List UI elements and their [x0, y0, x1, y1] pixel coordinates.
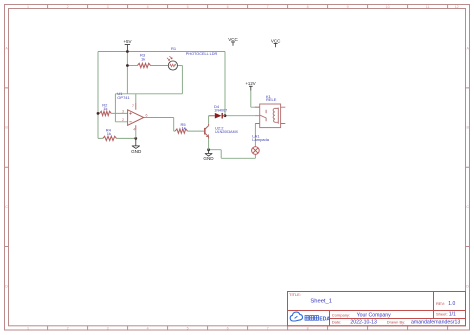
svg-text:11: 11 [426, 5, 430, 9]
svg-text:TITLE:: TITLE: [289, 292, 301, 297]
svg-text:OP741: OP741 [117, 95, 130, 100]
svg-text:R1: R1 [171, 46, 177, 51]
svg-text:RELE: RELE [266, 97, 277, 102]
svg-text:EDA: EDA [319, 316, 330, 322]
svg-text:1k: 1k [141, 57, 145, 62]
svg-text:1/1: 1/1 [449, 312, 456, 318]
svg-text:Drawn By:: Drawn By: [387, 319, 405, 324]
svg-text:Date:: Date: [332, 319, 342, 324]
svg-text:8: 8 [307, 5, 309, 9]
svg-text:3: 3 [122, 110, 124, 114]
svg-text:3: 3 [107, 326, 109, 330]
svg-text:1: 1 [27, 326, 29, 330]
svg-text:PHOTOCELL LDR: PHOTOCELL LDR [186, 52, 218, 56]
svg-text:7: 7 [267, 5, 269, 9]
svg-text:12: 12 [455, 5, 459, 9]
svg-text:1k: 1k [182, 126, 186, 131]
svg-text:VCC: VCC [228, 37, 238, 42]
svg-text:6: 6 [227, 5, 229, 9]
svg-text:C: C [5, 205, 8, 209]
svg-text:+12V: +12V [245, 81, 255, 86]
svg-text:2: 2 [67, 5, 69, 9]
svg-text:D: D [5, 284, 8, 288]
svg-text:3: 3 [107, 5, 109, 9]
svg-text:1k: 1k [107, 131, 111, 136]
svg-text:Lampada: Lampada [252, 137, 269, 142]
svg-text:8: 8 [307, 326, 309, 330]
svg-text:2022-10-13: 2022-10-13 [350, 320, 377, 326]
svg-text:7: 7 [267, 326, 269, 330]
svg-text:7: 7 [132, 104, 134, 108]
svg-text:5: 5 [187, 5, 189, 9]
svg-text:REV:: REV: [436, 301, 445, 306]
svg-text:1N4007: 1N4007 [214, 108, 227, 112]
svg-text:D: D [466, 284, 469, 288]
svg-text:GND: GND [203, 156, 214, 161]
svg-text:2: 2 [122, 118, 124, 122]
svg-text:4: 4 [133, 128, 135, 132]
svg-text:ULN2003AMX: ULN2003AMX [215, 130, 239, 134]
svg-text:4: 4 [147, 326, 149, 330]
svg-text:Your Company: Your Company [357, 313, 392, 319]
svg-text:1: 1 [27, 5, 29, 9]
svg-text:1k: 1k [103, 106, 107, 111]
svg-text:+5V: +5V [123, 39, 131, 44]
svg-text:4: 4 [147, 5, 149, 9]
svg-text:10: 10 [386, 5, 390, 9]
svg-text:C: C [466, 205, 469, 209]
svg-text:VCC: VCC [271, 39, 281, 44]
svg-text:2: 2 [67, 326, 69, 330]
svg-text:5: 5 [187, 326, 189, 330]
svg-text:GND: GND [131, 149, 142, 154]
svg-text:amandafernandesr13: amandafernandesr13 [411, 320, 460, 326]
svg-text:6: 6 [227, 326, 229, 330]
svg-text:9: 9 [347, 5, 349, 9]
svg-text:Company:: Company: [332, 313, 350, 318]
svg-text:6: 6 [146, 114, 148, 118]
svg-text:1.0: 1.0 [448, 301, 455, 307]
svg-text:Sheet:: Sheet: [436, 311, 448, 316]
svg-text:Sheet_1: Sheet_1 [310, 298, 332, 304]
